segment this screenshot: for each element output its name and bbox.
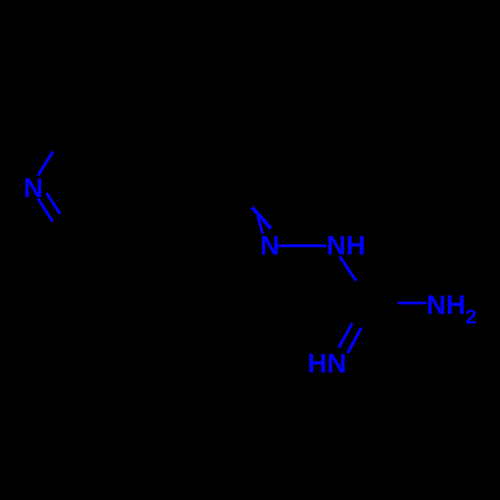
svg-text:NH: NH [427, 290, 466, 320]
wire: C-NH2 bond (blue half) [398, 302, 427, 305]
svg-text:N: N [24, 173, 44, 203]
svg-text:N: N [260, 231, 280, 261]
wire: CH=N crossed double bond line 1 (blue half) [252, 207, 271, 228]
wire: C=NH double bond main line (blue half) [339, 323, 353, 347]
wire: pyridine N-C2 bond (blue half) [38, 152, 53, 176]
wire: pyridine N=C6 double bond main line (blue half) [38, 199, 53, 222]
wire: CH=N crossed double bond line 2 (blue half) [258, 216, 263, 233]
wire: N-NH single bond [277, 244, 327, 247]
svg-text:NH: NH [327, 231, 366, 261]
wire: C=NH double bond inner line (blue half) [348, 328, 362, 353]
svg-text:2: 2 [466, 306, 477, 328]
svg-text:HN: HN [308, 349, 347, 379]
wire: pyridine N=C6 double bond inner line (blue half) [47, 193, 61, 214]
wire: NH-C bond (blue half) [340, 257, 356, 281]
